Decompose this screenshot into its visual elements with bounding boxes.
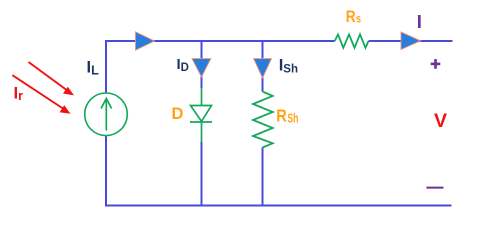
svg-text:ISh: ISh [279, 57, 298, 76]
svg-text:I: I [417, 11, 422, 32]
irradiance arrow 1 [29, 62, 75, 95]
wire top horizontal left segment [106, 40, 335, 42]
wire left vertical lower [105, 136, 107, 207]
current arrow on top wire [136, 32, 155, 50]
svg-text:IL: IL [87, 59, 100, 78]
wire shunt branch upper [262, 41, 264, 92]
diode D [190, 88, 212, 143]
svg-text:R: R [276, 105, 287, 125]
svg-text:D: D [172, 105, 184, 123]
current arrow I_D [192, 59, 211, 77]
current arrow I (output) [401, 32, 421, 50]
svg-text:R: R [346, 8, 356, 26]
wire diode branch upper [201, 41, 203, 88]
wire shunt branch lower [262, 148, 264, 206]
label R_s [346, 8, 361, 26]
svg-text:V: V [434, 110, 447, 132]
resistor R_s [335, 34, 369, 47]
svg-text:Ir: Ir [14, 84, 24, 103]
current arrow I_Sh [254, 59, 272, 78]
label R_Sh [276, 105, 298, 125]
minus terminal [427, 187, 444, 189]
plus terminal [431, 59, 441, 69]
wire left vertical upper [105, 40, 107, 93]
irradiance arrow 2 [12, 75, 70, 114]
resistor R_Sh [253, 92, 273, 148]
svg-text:ID: ID [177, 56, 189, 74]
wire diode branch lower [201, 142, 203, 206]
svg-text:Sh: Sh [287, 111, 298, 125]
svg-text:s: s [356, 12, 361, 26]
wire bottom horizontal [105, 205, 452, 207]
wire top horizontal right segment [369, 40, 453, 42]
current source I_L [85, 93, 128, 136]
